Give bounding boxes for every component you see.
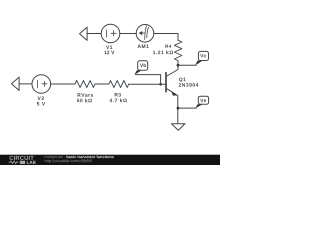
- footer logo CIRCUIT: [9, 156, 33, 160]
- label AM1: [138, 45, 149, 48]
- label R3 value: [109, 98, 126, 102]
- label V2 value: [37, 102, 45, 105]
- label V1 value: [104, 51, 114, 54]
- component labels: [37, 45, 206, 106]
- input port arrow (top): [80, 27, 88, 40]
- wire V2 to RVars: [51, 83, 75, 85]
- footer author: [45, 155, 65, 158]
- node C junction: [177, 64, 180, 67]
- label R4: [165, 45, 171, 48]
- voltage source V2: [32, 75, 51, 94]
- label V1: [106, 46, 112, 49]
- label RVars: [78, 93, 94, 96]
- wire R4 to collector node: [177, 61, 179, 66]
- label R4 value: [153, 50, 173, 54]
- wire AM1 to R4: [154, 34, 178, 41]
- label Q1 part: [179, 83, 199, 87]
- wire node C to Vc flag: [178, 64, 196, 66]
- node B junction: [159, 83, 162, 86]
- transistor Q1 emitter lead: [167, 89, 178, 124]
- node E junction: [177, 107, 180, 110]
- footer bar: [0, 155, 220, 165]
- emitter arrowhead: [171, 92, 176, 96]
- ground: [171, 124, 185, 130]
- footer logo LAB: [27, 161, 36, 164]
- resistor R3: [109, 81, 129, 88]
- resistor R4: [174, 40, 182, 60]
- flag Vb: [138, 61, 148, 70]
- wire port to V1: [87, 33, 101, 35]
- transistor Q1 collector lead: [167, 65, 178, 76]
- label V2: [37, 97, 43, 100]
- ammeter AM1: [136, 25, 154, 43]
- label Q1: [179, 78, 186, 82]
- base wire from R3: [129, 83, 165, 85]
- input port arrow (bottom): [12, 77, 20, 90]
- flag text Vc: [200, 54, 206, 57]
- wire node B to Vb flag: [136, 75, 161, 85]
- flag Vc: [198, 51, 208, 60]
- footer logo resistor zigzag: [9, 161, 19, 164]
- voltage source V1: [101, 24, 120, 43]
- wire V1 to AM1: [120, 33, 137, 35]
- flag Ve: [198, 96, 208, 104]
- flag Ve tail: [195, 104, 202, 108]
- footer logo mark: [20, 161, 25, 164]
- wire port to V2: [19, 83, 32, 85]
- label RVars value: [77, 99, 92, 103]
- flag text Ve: [200, 99, 206, 102]
- flag text Vb: [140, 63, 146, 67]
- transistor Q1 base bar: [165, 73, 167, 92]
- wire RVars to R3: [95, 83, 109, 85]
- footer title: [67, 155, 114, 158]
- label R3: [115, 93, 121, 97]
- flag Vc tail: [195, 61, 202, 66]
- flag Vb tail: [134, 70, 141, 75]
- footer url: [45, 159, 92, 163]
- wire node E to Ve flag: [178, 107, 196, 109]
- resistor RVars: [75, 81, 95, 88]
